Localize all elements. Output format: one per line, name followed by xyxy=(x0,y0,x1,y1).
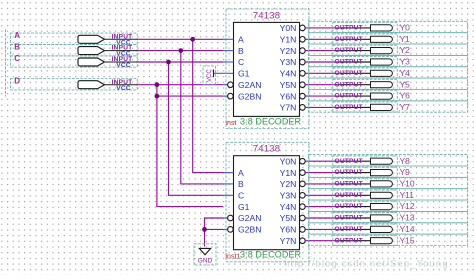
wire Y12 net xyxy=(305,206,340,208)
svg-text:VCC: VCC xyxy=(116,62,131,69)
output pin Y0 xyxy=(309,21,468,32)
wire net D xyxy=(137,85,223,207)
svg-text:Y8: Y8 xyxy=(400,156,411,166)
wire Y9 net xyxy=(305,172,340,174)
wire Y4 net xyxy=(305,72,340,74)
output pin Y3 xyxy=(309,55,468,66)
wire Y7 net xyxy=(305,106,340,108)
svg-text:OUTPUT: OUTPUT xyxy=(335,203,363,210)
svg-text:Y7N: Y7N xyxy=(280,236,297,246)
svg-text:G2AN: G2AN xyxy=(238,213,261,223)
svg-text:Y0: Y0 xyxy=(400,23,411,33)
svg-text:Y4N: Y4N xyxy=(280,202,297,212)
svg-text:Y15: Y15 xyxy=(400,235,415,245)
svg-text:Y0N: Y0N xyxy=(280,23,297,33)
wire net C xyxy=(137,62,223,195)
svg-text:3:8 DECODER: 3:8 DECODER xyxy=(240,116,302,126)
svg-text:Y13: Y13 xyxy=(400,213,415,223)
svg-text:Y7: Y7 xyxy=(400,102,411,112)
wire Y8 net xyxy=(305,160,340,162)
svg-text:Y3N: Y3N xyxy=(280,57,297,67)
svg-text:74138: 74138 xyxy=(253,144,280,155)
svg-text:C: C xyxy=(238,191,244,201)
wire Y14 net xyxy=(305,228,340,230)
wire Y3 net xyxy=(305,61,340,63)
wire Y11 net xyxy=(305,194,340,196)
output pin Y11 xyxy=(309,189,468,200)
svg-text:OUTPUT: OUTPUT xyxy=(335,226,363,233)
svg-text:http://blog.csdn.net/Sep_Young: http://blog.csdn.net/Sep_Young xyxy=(284,259,449,270)
selection edge left margin xyxy=(5,30,7,97)
svg-text:B: B xyxy=(14,42,20,51)
output pin Y9 xyxy=(309,166,468,177)
svg-text:Y10: Y10 xyxy=(400,179,415,189)
svg-text:Y0N: Y0N xyxy=(280,156,297,166)
74138 decoder U2 (inst1) xyxy=(223,142,309,261)
wire Y2 net xyxy=(305,50,340,52)
wire Y1 net xyxy=(305,38,340,40)
svg-text:Y14: Y14 xyxy=(400,224,415,234)
ground xyxy=(194,244,216,265)
wire Y10 net xyxy=(305,183,340,185)
output pin Y8 xyxy=(309,155,468,166)
svg-text:Y2N: Y2N xyxy=(280,46,297,56)
svg-text:A: A xyxy=(14,31,20,40)
output pin Y1 xyxy=(309,33,468,44)
svg-text:C: C xyxy=(238,57,244,67)
svg-text:OUTPUT: OUTPUT xyxy=(335,59,363,66)
input pin D xyxy=(11,77,138,92)
junction chip2 enable xyxy=(202,227,207,232)
svg-text:Y2: Y2 xyxy=(400,45,411,55)
svg-text:Y5N: Y5N xyxy=(280,80,297,90)
svg-text:inst1: inst1 xyxy=(226,254,241,261)
output pin Y7 xyxy=(309,101,468,112)
svg-text:Y5: Y5 xyxy=(400,79,411,89)
svg-text:B: B xyxy=(238,46,244,56)
junction net B xyxy=(178,48,183,53)
output pin Y6 xyxy=(309,90,468,101)
output pin Y12 xyxy=(309,200,468,211)
wire Y6 net xyxy=(305,95,340,97)
svg-text:VCC: VCC xyxy=(116,85,131,92)
wire Y13 net xyxy=(305,217,340,219)
svg-text:G1: G1 xyxy=(238,69,250,79)
wire net A xyxy=(137,39,223,172)
svg-text:G2AN: G2AN xyxy=(238,80,261,90)
wire Y0 net xyxy=(305,27,340,29)
svg-text:Y6N: Y6N xyxy=(280,225,297,235)
output pin Y13 xyxy=(309,211,468,222)
svg-text:Y3N: Y3N xyxy=(280,191,297,201)
svg-text:B: B xyxy=(238,179,244,189)
svg-text:OUTPUT: OUTPUT xyxy=(335,36,363,43)
svg-text:Y9: Y9 xyxy=(400,167,411,177)
svg-text:OUTPUT: OUTPUT xyxy=(335,81,363,88)
input pin B xyxy=(11,42,138,57)
svg-text:D: D xyxy=(14,77,20,86)
svg-text:Y1: Y1 xyxy=(400,34,411,44)
svg-text:G1: G1 xyxy=(238,202,250,212)
svg-text:A: A xyxy=(238,168,244,178)
svg-text:OUTPUT: OUTPUT xyxy=(335,104,363,111)
svg-text:Y6: Y6 xyxy=(400,91,411,101)
svg-text:G2BN: G2BN xyxy=(238,225,261,235)
output pin Y15 xyxy=(309,234,468,245)
svg-text:Y3: Y3 xyxy=(400,57,411,67)
svg-text:OUTPUT: OUTPUT xyxy=(335,237,363,244)
junction net C xyxy=(166,60,171,65)
svg-text:inst: inst xyxy=(226,120,237,127)
vcc symbol xyxy=(203,66,216,85)
svg-text:C: C xyxy=(14,54,20,63)
svg-text:G2BN: G2BN xyxy=(238,91,261,101)
input pin C xyxy=(11,54,138,69)
svg-text:GND: GND xyxy=(198,257,213,264)
svg-text:OUTPUT: OUTPUT xyxy=(335,192,363,199)
svg-text:OUTPUT: OUTPUT xyxy=(335,158,363,165)
svg-text:A: A xyxy=(238,35,244,45)
junction net A xyxy=(190,37,195,42)
svg-text:OUTPUT: OUTPUT xyxy=(335,181,363,188)
svg-text:Y4N: Y4N xyxy=(280,69,297,79)
wire chip2 enables to ground xyxy=(205,218,224,247)
svg-text:Y7N: Y7N xyxy=(280,103,297,113)
svg-text:Y6N: Y6N xyxy=(280,91,297,101)
svg-text:OUTPUT: OUTPUT xyxy=(335,47,363,54)
junction net D upper xyxy=(155,82,160,87)
svg-text:Y2N: Y2N xyxy=(280,179,297,189)
output pin Y14 xyxy=(309,223,468,234)
output pin Y10 xyxy=(309,177,468,188)
svg-text:Y11: Y11 xyxy=(400,190,415,200)
input pin A xyxy=(11,31,138,46)
svg-text:VCC: VCC xyxy=(207,69,213,82)
svg-text:Y12: Y12 xyxy=(400,201,415,211)
wire Y15 net xyxy=(305,240,340,242)
svg-text:OUTPUT: OUTPUT xyxy=(335,93,363,100)
junction net D lower xyxy=(155,94,160,99)
svg-text:OUTPUT: OUTPUT xyxy=(335,215,363,222)
output pin Y5 xyxy=(309,78,468,89)
svg-text:Y4: Y4 xyxy=(400,68,411,78)
wire Y5 net xyxy=(305,84,340,86)
wire net B xyxy=(137,51,223,184)
svg-text:OUTPUT: OUTPUT xyxy=(335,169,363,176)
output pin Y2 xyxy=(309,44,468,55)
wire vcc to G1 xyxy=(214,72,234,74)
svg-text:Y1N: Y1N xyxy=(280,35,297,45)
svg-text:Y5N: Y5N xyxy=(280,213,297,223)
svg-text:Y1N: Y1N xyxy=(280,168,297,178)
74138 decoder U1 (inst) xyxy=(223,9,309,129)
svg-text:74138: 74138 xyxy=(253,10,280,21)
svg-text:OUTPUT: OUTPUT xyxy=(335,70,363,77)
svg-text:OUTPUT: OUTPUT xyxy=(335,25,363,32)
output pin Y4 xyxy=(309,67,468,78)
